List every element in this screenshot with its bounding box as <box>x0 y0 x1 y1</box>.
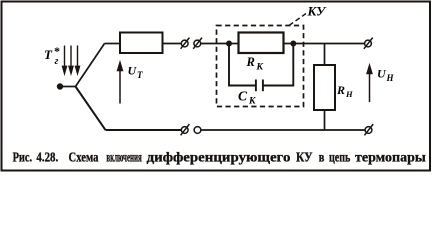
node right (junction dot) <box>290 41 296 47</box>
terminal bottom-left slashed circle <box>181 124 190 135</box>
svg-text:цепь: цепь <box>329 151 351 166</box>
svg-text:R: R <box>336 83 345 97</box>
capacitor Ck left plate <box>255 80 257 92</box>
svg-text:Н: Н <box>345 89 353 99</box>
svg-text:термопары: термопары <box>355 151 426 166</box>
wire into correction unit <box>201 43 229 45</box>
svg-text:Т: Т <box>137 70 143 80</box>
terminal bottom-right slashed circle <box>364 124 373 135</box>
voltage arrow Ut <box>118 63 123 104</box>
terminal top-left pair: slashed circle 2 <box>193 38 202 49</box>
thermocouple hot junction node <box>57 83 63 89</box>
wire node right to top-right terminal <box>293 43 364 45</box>
terminal top-right slashed circle <box>364 38 373 49</box>
svg-text:КУ: КУ <box>307 4 328 19</box>
bottom wire right segment <box>201 129 365 131</box>
capacitor branch: left drop wire <box>229 44 256 86</box>
caption <box>13 151 426 166</box>
load resistor Rn (vertical box) <box>314 65 335 110</box>
wire Rn to bottom wire <box>324 110 326 130</box>
svg-text:R: R <box>246 55 255 69</box>
svg-text:4.28.: 4.28. <box>36 151 58 166</box>
wire to thermocouple resistor <box>105 43 121 45</box>
svg-text:г: г <box>55 56 59 67</box>
voltage arrow Un <box>367 66 372 103</box>
svg-text:U: U <box>377 67 387 81</box>
terminal bottom open circle <box>194 127 201 134</box>
wire node to Rk <box>229 43 239 45</box>
dashed leader line to KU label <box>289 14 306 26</box>
terminal top-left pair: slashed circle 1 <box>181 38 190 49</box>
svg-text:дифференцирующего: дифференцирующего <box>147 151 291 166</box>
wire resistor to left terminal <box>163 43 182 45</box>
wire stub from junction <box>60 86 76 88</box>
thermocouple line resistor (unlabeled box) <box>120 33 163 54</box>
capacitor branch: right rise wire <box>263 44 293 86</box>
svg-text:включения: включения <box>106 151 142 166</box>
svg-text:К: К <box>248 97 256 107</box>
wire lower diagonal <box>76 87 106 131</box>
svg-text:К: К <box>256 63 264 73</box>
svg-text:Н: Н <box>386 73 395 83</box>
svg-text:Схема: Схема <box>69 151 99 166</box>
node left (junction dot) <box>226 41 232 47</box>
wire upper diagonal <box>76 44 105 87</box>
svg-text:Рис.: Рис. <box>13 151 32 166</box>
svg-text:КУ: КУ <box>296 151 313 166</box>
svg-text:С: С <box>238 89 248 104</box>
svg-text:в: в <box>319 151 325 166</box>
heat arrows (3 down arrows) <box>63 46 80 74</box>
bottom wire left segment <box>106 129 182 131</box>
capacitor Ck right plate <box>262 80 264 92</box>
resistor Rk <box>239 33 284 54</box>
wire down to load resistor <box>324 44 326 66</box>
wire Rk to node right <box>284 43 294 45</box>
svg-text:U: U <box>128 64 138 78</box>
dashed box of correction unit KU <box>217 26 304 107</box>
svg-text:T: T <box>44 47 53 62</box>
outer frame <box>2 2 431 171</box>
